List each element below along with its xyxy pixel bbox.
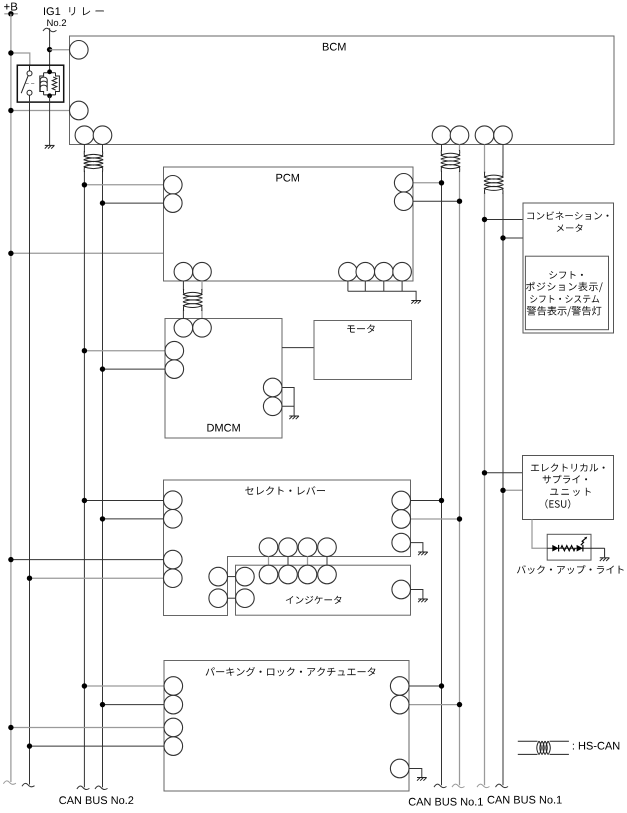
ground indicator [418, 599, 428, 602]
break symbol CAN2 left bottom [77, 786, 90, 789]
break symbol CAN1C left bottom [477, 784, 490, 787]
connector pin select leg 2 [209, 589, 228, 608]
wire +B to BCM pin [11, 110, 70, 112]
junction dot CAN2-L parking [82, 683, 87, 688]
junction dot IG select [27, 576, 32, 581]
twisted pair symbol CAN2 below BCM [84, 151, 104, 172]
connector pin indicator right [392, 580, 411, 599]
wire select-indicator link 5 [228, 576, 236, 578]
connector pin parking right 2 [390, 695, 409, 714]
relay coil bottom node dot [47, 93, 52, 98]
connector pin parking right 3 [390, 759, 409, 778]
connector pin BCM bottom B2 [450, 126, 469, 145]
wire IG to parking pin [30, 745, 165, 747]
wire PCM pin to CAN1B-H [413, 200, 460, 202]
wire CAN2-L to select pin [84, 500, 163, 502]
wire CAN1C-H to ESU [503, 489, 523, 491]
connector pin DMCM right 1 [263, 378, 282, 397]
wire IG1 feed [49, 28, 51, 72]
connector pin parking left 4 [164, 737, 183, 756]
connector pin PCM left 2 [164, 194, 183, 213]
wire PCM-DMCM left vertical [182, 281, 184, 290]
wire indicator ground [411, 590, 423, 599]
connector pin BCM bottom C1 [475, 126, 494, 145]
wire CAN2-H to parking pin [103, 704, 165, 706]
relay K1 box [17, 65, 63, 102]
connector pin DMCM top 2 [193, 319, 212, 338]
junction dot CAN1C-H ESU [500, 488, 505, 493]
wire select pin to CAN1B-L [411, 500, 442, 502]
relay dashed actuator link [26, 83, 37, 85]
wire parking pin to CAN1B-H [409, 704, 460, 706]
connector pin PCM bottom 2 [193, 262, 212, 281]
wire select-indicator link 3 [307, 557, 309, 566]
break symbol IG1 feed top [43, 28, 57, 32]
connector pin BCM bottom C2 [494, 126, 513, 145]
connector pin BCM bottom A2 [93, 126, 112, 145]
connector pin PCM bottom 1 [174, 262, 193, 281]
legend HS-CAN label [573, 742, 619, 750]
box combination meter [523, 203, 614, 333]
junction dot CAN2-H parking [100, 702, 105, 707]
resistor backup light [561, 546, 575, 551]
wire CAN2-L to DMCM pin [84, 350, 165, 352]
wire parking ground [409, 769, 422, 778]
wire CAN2-H to select pin [103, 518, 164, 520]
wire CAN2-L to parking pin [84, 685, 164, 687]
wire backup light to ground [604, 548, 606, 557]
connector pin select leg 1 [209, 567, 228, 586]
junction dot bus y253 [8, 251, 13, 256]
break symbol CAN2 right bottom [95, 786, 108, 789]
junction dot CAN2-H PCM [100, 200, 105, 205]
junction dot bus y110 [8, 108, 13, 113]
ground select lever [418, 552, 428, 555]
wire PCM-DMCM right vertical [201, 281, 203, 290]
wire backup light internal [547, 547, 604, 549]
wire relay coil to ground [49, 96, 51, 145]
connector pin select left 1 [164, 491, 183, 510]
box ESU [523, 456, 614, 520]
wire IG1 node to BCM pin [50, 49, 71, 51]
junction dot CAN1C-L ESU [482, 470, 487, 475]
connector pin DMCM right 2 [263, 397, 282, 416]
junction dot CAN1B-L PCM [439, 180, 444, 185]
wire select-indicator link 2 [287, 557, 289, 566]
box select lever L-shape [164, 480, 411, 616]
wire CAN2 right vertical [102, 145, 104, 153]
wire DMCM ground bracket [282, 388, 294, 416]
junction dot CAN1B-L parking [439, 683, 444, 688]
connector pin BCM bottom B1 [432, 126, 451, 145]
break symbol CAN1C right bottom [496, 784, 509, 787]
connector pin PCM gnd 3 [375, 262, 394, 281]
wire relay switch output [29, 95, 31, 784]
junction dot +B select [8, 557, 13, 562]
wire select pin to CAN1B-H [411, 518, 460, 520]
connector pin indicator top 2 [279, 565, 298, 584]
box parking lock actuator [164, 661, 409, 792]
junction dot CAN1B-H parking [457, 702, 462, 707]
connector pin DMCM left 1 [165, 341, 184, 360]
wire PCM pin to CAN1B-L [413, 182, 442, 184]
label relay No.2 [47, 19, 66, 26]
wire parking pin to CAN1B-L [409, 685, 442, 687]
connector pin indicator left 1 [236, 567, 255, 586]
wire select-indicator link 1 [268, 557, 270, 566]
junction dot CAN1B-H select [457, 516, 462, 521]
connector pin BCM left 1 [70, 41, 89, 60]
box shift position display [525, 256, 608, 330]
break symbol +B bus bottom [3, 781, 16, 784]
junction dot CAN1B-H PCM [457, 199, 462, 204]
label shift line1 [549, 271, 583, 279]
break symbol CAN1B left bottom [434, 784, 447, 787]
relay coil top node dot [47, 69, 52, 74]
wire +B to select pin [11, 559, 164, 561]
ground backup light [600, 558, 610, 561]
connector pin select left 4 [164, 569, 183, 588]
connector pin PCM left 1 [164, 176, 183, 195]
label PCM [276, 174, 299, 182]
label ESU line3 [550, 488, 591, 496]
box motor [314, 321, 412, 380]
connector pin PCM right 2 [394, 192, 413, 211]
wire CAN1B left vertical [441, 145, 443, 152]
wire CAN1B right vertical [459, 145, 461, 152]
break symbol CAN1B right bottom [452, 784, 465, 787]
connector pin parking right 1 [390, 677, 409, 696]
junction dot CAN1C-H meter [500, 235, 505, 240]
label parking lock actuator [206, 667, 376, 676]
connector pin select bottom 1 [259, 538, 278, 557]
label ESU line4 [545, 499, 570, 509]
connector pin parking left 3 [164, 718, 183, 737]
LED light arrow [581, 538, 586, 545]
ground PCM [411, 301, 421, 304]
label BCM [323, 43, 346, 51]
junction dot CAN1C-L meter [482, 217, 487, 222]
junction dot CAN2-L PCM [82, 182, 87, 187]
connector pin parking left 2 [164, 695, 183, 714]
wire +B bus vertical [10, 14, 12, 782]
label select lever [245, 486, 325, 495]
ground DMCM [289, 416, 299, 419]
wire select-indicator link 6 [228, 597, 236, 599]
connector pin BCM left 2 [70, 101, 89, 120]
junction dot +B [8, 11, 13, 16]
wire +B to relay switch [11, 53, 30, 65]
connector pin select left 3 [164, 550, 183, 569]
wire ESU to backup light [532, 520, 547, 549]
wire PCM ground bracket [348, 281, 416, 300]
wire CAN2-H to DMCM pin [103, 368, 166, 370]
wire IG to select pin [30, 577, 164, 579]
connector pin DMCM top 1 [174, 319, 193, 338]
connector pin DMCM left 2 [165, 360, 184, 379]
box backup light [547, 534, 591, 560]
legend HS-CAN twisted pair symbol [518, 741, 569, 754]
relay coil with parallel resistor [40, 73, 60, 95]
wire CAN1C-H to meter [503, 237, 523, 239]
junction dot IG parking [27, 743, 32, 748]
ground relay coil [45, 145, 55, 148]
connector pin select left 2 [164, 510, 183, 529]
connector pin select right 2 [392, 510, 411, 529]
connector pin select bottom 4 [318, 538, 337, 557]
wire +B to parking pin [11, 727, 164, 729]
label DMCM [207, 424, 239, 432]
connector pin select bottom 3 [298, 538, 317, 557]
wire CAN2 left vertical [83, 145, 85, 153]
wire DMCM to motor [282, 347, 314, 349]
junction dot CAN1B-L select [439, 498, 444, 503]
twisted pair symbol CAN1C [484, 172, 504, 194]
wire CAN1C right vertical [502, 145, 504, 173]
connector pin indicator top 3 [298, 565, 317, 584]
junction dot bus y53 [8, 50, 13, 55]
label shift line2 [526, 282, 603, 292]
label backup light [517, 565, 624, 574]
wire CAN2-L to PCM pin1 [84, 184, 163, 186]
label shift line4 [527, 306, 602, 316]
connector pin select right 1 [392, 491, 411, 510]
wire select-indicator link 4 [326, 557, 328, 566]
diode D1 backup light [552, 545, 558, 552]
connector pin parking left 1 [164, 677, 183, 696]
connector pin PCM gnd 4 [393, 262, 412, 281]
junction dot +B parking [8, 725, 13, 730]
label CAN BUS No.1 left [409, 798, 483, 806]
connector pin PCM right 1 [394, 174, 413, 193]
diode D2 LED backup light [577, 545, 583, 552]
connector pin select right 3 [392, 533, 411, 552]
connector pin PCM gnd 1 [339, 262, 358, 281]
wire CAN2-H to PCM pin2 [103, 202, 164, 204]
wire select ground [411, 543, 423, 552]
box BCM [70, 36, 615, 145]
label ESU line1 [531, 463, 605, 471]
junction dot CAN2-L DMCM [82, 348, 87, 353]
label combination meter line1 [527, 211, 608, 219]
label motor [347, 324, 375, 333]
connector pin PCM gnd 2 [356, 262, 375, 281]
junction dot CAN2-H DMCM [100, 366, 105, 371]
break symbol IG line bottom [22, 783, 35, 786]
connector pin indicator left 2 [236, 589, 255, 608]
twisted pair symbol CAN1B below BCM [441, 150, 461, 172]
connector pin BCM bottom A1 [75, 126, 94, 145]
node +B label [4, 3, 17, 11]
label combination meter line2 [557, 224, 583, 232]
wire CAN1C-L to ESU [485, 472, 523, 474]
box PCM [164, 167, 414, 281]
junction dot IG1 node [47, 47, 52, 52]
connector pin indicator top 4 [318, 565, 337, 584]
label shift line3 [530, 295, 599, 303]
label ESU line2 [543, 475, 587, 484]
label indicator [286, 596, 342, 604]
ground parking [417, 778, 427, 781]
label CAN BUS No.1 right [488, 796, 562, 804]
junction dot CAN2-H select [100, 516, 105, 521]
box DMCM [165, 319, 282, 439]
box indicator [236, 565, 411, 615]
label IG1 relay [44, 7, 104, 15]
wire CAN1C-L to meter [485, 219, 524, 221]
connector pin indicator top 1 [259, 565, 278, 584]
connector pin select bottom 2 [279, 538, 298, 557]
label CAN BUS No.2 [59, 796, 133, 804]
wire CAN1C left vertical [484, 145, 486, 173]
junction dot CAN2-L select [82, 498, 87, 503]
twisted pair symbol PCM-DMCM [183, 289, 203, 311]
relay switch contact [21, 65, 32, 95]
wire +B to PCM direct [11, 252, 164, 254]
node +B terminal tick [4, 13, 17, 15]
